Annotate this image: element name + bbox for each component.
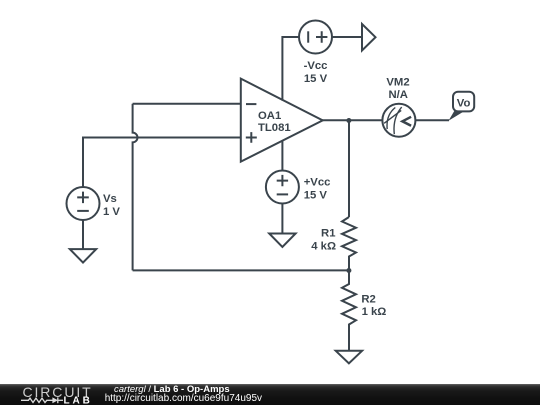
wire from -Vcc source to terminal flag: [332, 36, 362, 38]
CircuitLab logo resistor-diode squiggle: [21, 397, 63, 403]
wire +Vcc source to ground: [281, 204, 283, 234]
dc source V3 (+Vcc): [266, 171, 299, 204]
wire op-amp V- pin to +Vcc source: [281, 140, 283, 170]
svg-text:15 V: 15 V: [304, 73, 328, 85]
output wire: [322, 119, 382, 121]
net flag Vo pointer: [449, 111, 464, 121]
ground under R2: [336, 351, 362, 364]
svg-text:Vs: Vs: [103, 193, 117, 205]
voltage source Vs: [67, 187, 100, 220]
node junction between R1 and R2: [346, 268, 351, 273]
ground under +Vcc: [269, 234, 295, 248]
net flag Vo box: [453, 92, 474, 112]
resistor R1: [342, 217, 356, 270]
terminal flag (arrow): [362, 24, 376, 51]
footer bar: [0, 384, 540, 405]
wire Vs to ground: [82, 220, 84, 249]
svg-text:-Vcc: -Vcc: [304, 60, 328, 72]
wire Vs to op-amp + input: [83, 138, 241, 188]
svg-text:OA1: OA1: [258, 110, 281, 122]
feedback wire vertical with hop over + wire: [133, 104, 138, 271]
wire op-amp - input: [133, 103, 241, 105]
wire output node down to R1: [348, 120, 350, 217]
svg-text:TL081: TL081: [258, 122, 291, 134]
svg-text:VM2: VM2: [386, 77, 409, 89]
svg-text:LAB: LAB: [64, 396, 93, 405]
svg-text:Vo: Vo: [457, 98, 471, 110]
svg-text:1 V: 1 V: [103, 206, 120, 218]
svg-text:1 kΩ: 1 kΩ: [362, 306, 387, 318]
feedback wire horizontal to R1/R2 node: [133, 269, 349, 271]
node junction at op-amp output: [346, 118, 351, 123]
svg-text:N/A: N/A: [388, 89, 407, 101]
voltmeter VM2: [382, 104, 415, 137]
dc source V2 (-Vcc): [299, 21, 332, 54]
svg-text:15 V: 15 V: [304, 189, 328, 201]
svg-text:+Vcc: +Vcc: [304, 177, 331, 189]
ground under Vs: [70, 249, 96, 263]
svg-text:http://circuitlab.com/cu6e9fu7: http://circuitlab.com/cu6e9fu74u95v: [105, 393, 262, 404]
svg-text:4 kΩ: 4 kΩ: [311, 240, 336, 252]
resistor R2: [342, 270, 356, 350]
op-amp OA1: [241, 79, 323, 162]
svg-text:R1: R1: [321, 228, 335, 240]
svg-text:R2: R2: [361, 293, 375, 305]
wire VM2 to Vo flag: [415, 119, 449, 121]
wire from -Vcc source to op-amp V+ pin: [282, 37, 299, 101]
